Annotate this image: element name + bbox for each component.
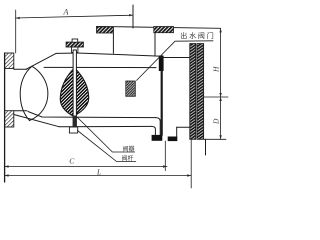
- inlet bore top line: [14, 68, 27, 70]
- outlet flange right edge drop line: [205, 139, 207, 155]
- body chamber lens left arc: [20, 66, 32, 120]
- outlet flange left column hatch: [190, 44, 196, 140]
- label leader to guide block: [137, 41, 213, 81]
- bottom port right foot: [168, 137, 178, 142]
- stem cap plate: [66, 42, 83, 47]
- body top line right of stem: [77, 53, 162, 56]
- dimension C extension: [164, 141, 166, 171]
- stem bottom nut: [69, 127, 77, 133]
- outlet hub bottom line: [177, 126, 190, 128]
- body chamber lens right arc: [30, 66, 48, 120]
- bonnet left wall: [112, 34, 114, 54]
- dimension A line: [16, 15, 134, 18]
- svg-text:D: D: [211, 118, 220, 125]
- dimension L line: [5, 175, 192, 177]
- left flange bottom hatch: [5, 111, 14, 127]
- dimension A left extension: [15, 10, 17, 53]
- svg-text:C: C: [69, 157, 75, 166]
- leader to disc: [77, 117, 135, 153]
- dimension A right extension: [132, 5, 134, 28]
- left flange face and dim extension: [4, 53, 6, 182]
- outlet flange right column hatch: [197, 44, 204, 140]
- stem lower dark segment: [73, 116, 77, 128]
- bonnet right hatched bar: [154, 27, 174, 33]
- centerline tick right: [204, 96, 228, 98]
- passage bottom inner line: [28, 112, 156, 118]
- guide block hatched square: [126, 81, 136, 96]
- svg-text:A: A: [63, 8, 69, 17]
- inlet bore bottom line: [14, 110, 27, 112]
- seat black bar: [159, 56, 164, 72]
- body bottom diagonal: [14, 115, 59, 127]
- svg-text:L: L: [96, 168, 101, 177]
- svg-text:阀杆: 阀杆: [122, 155, 134, 163]
- valve stem: [73, 50, 76, 127]
- bonnet left hatched bar: [97, 27, 114, 33]
- body bottom line: [59, 125, 152, 127]
- bonnet top line: [97, 26, 221, 28]
- bottom port left foot: [152, 135, 163, 141]
- bottom port left wall: [156, 118, 160, 135]
- dimension H/D vertical line: [220, 28, 222, 139]
- body top line left of stem: [56, 52, 73, 54]
- body top diagonal: [26, 53, 56, 69]
- svg-text:阀瓣: 阀瓣: [123, 145, 135, 153]
- dimension arrowheads: [5, 14, 222, 177]
- dimension C line: [5, 166, 167, 168]
- svg-text:H: H: [211, 66, 220, 73]
- dimension D bottom extension: [204, 138, 226, 140]
- stem boss under cap: [72, 47, 78, 53]
- dimension L extension: [190, 140, 192, 188]
- bottom port outer left wall: [152, 126, 156, 134]
- seat wall line: [161, 71, 163, 135]
- leader to stem: [78, 131, 136, 162]
- stem cap tab: [72, 39, 78, 42]
- left flange top hatch: [5, 53, 14, 69]
- svg-text:出水阀门: 出水阀门: [180, 31, 215, 40]
- bonnet right wall: [154, 33, 156, 56]
- bottom port right wall: [176, 127, 178, 136]
- passage top inner line: [44, 66, 156, 68]
- outlet hub top line: [160, 57, 189, 59]
